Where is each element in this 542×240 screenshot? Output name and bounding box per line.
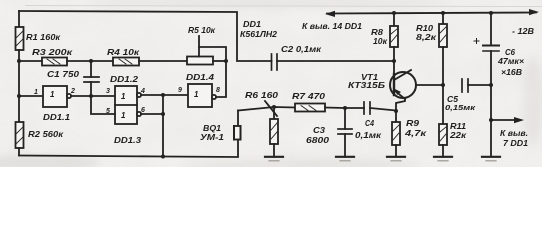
ground under output: [482, 157, 500, 161]
wire: [67, 60, 113, 62]
ground under R6: [265, 157, 283, 161]
wire bottom rail: [19, 140, 238, 157]
wire: [19, 95, 43, 97]
node C3 top: [343, 106, 347, 110]
power rail right: [325, 9, 539, 17]
wire collector: [416, 84, 443, 86]
resistor R2: [16, 122, 24, 156]
svg-text:C3: C3: [313, 125, 325, 135]
resistor R11: [439, 85, 447, 157]
wire output down: [490, 120, 492, 156]
svg-text:R3 200к: R3 200к: [32, 47, 73, 57]
capacitor C1: [84, 61, 99, 96]
resistor R5 (trimmer): [187, 36, 226, 65]
svg-text:9: 9: [178, 87, 182, 94]
node C5 out: [489, 83, 493, 87]
svg-text:6800: 6800: [306, 135, 329, 145]
svg-text:C1 750: C1 750: [47, 69, 79, 79]
svg-text:4,7к: 4,7к: [404, 128, 427, 138]
node R1-R3 junction: [17, 59, 21, 63]
node emitter network: [394, 109, 398, 113]
svg-text:- 12В: - 12В: [512, 26, 534, 36]
svg-text:22к: 22к: [449, 130, 467, 140]
resistor R7: [295, 104, 364, 112]
node C1 top: [89, 59, 93, 63]
svg-text:DD1: DD1: [243, 19, 261, 29]
capacitor C2: [272, 54, 395, 70]
wire BQ1 top to R6: [238, 107, 295, 111]
svg-text:×16В: ×16В: [501, 67, 522, 77]
svg-text:DD1.3: DD1.3: [114, 135, 141, 145]
resistor R4: [113, 58, 139, 66]
resistor R10: [439, 13, 447, 85]
svg-text:R1 160к: R1 160к: [26, 32, 61, 42]
node: [161, 112, 165, 116]
wire left top rail: [19, 11, 272, 61]
wire DD1.3 input: [91, 96, 115, 114]
svg-text:10к: 10к: [373, 36, 388, 46]
svg-text:DD1.1: DD1.1: [43, 112, 70, 122]
transducer BQ1: [234, 111, 241, 140]
node R6 top: [272, 105, 276, 109]
svg-text:DD1.4: DD1.4: [186, 72, 214, 82]
wire DD1.3 output: [141, 113, 163, 115]
svg-text:1: 1: [121, 111, 126, 120]
ground under C3: [336, 157, 354, 161]
svg-text:0,1мк: 0,1мк: [355, 130, 382, 140]
svg-text:2: 2: [70, 88, 75, 95]
resistor R6 (variable): [265, 101, 278, 157]
svg-text:1: 1: [34, 89, 38, 96]
ground under R11: [434, 157, 452, 161]
node C6 rail: [489, 11, 493, 15]
node C1 bottom: [89, 94, 93, 98]
svg-text:3: 3: [106, 88, 110, 95]
svg-text:R7 470: R7 470: [292, 91, 325, 101]
wire DD1.2 output to DD1.4 input: [141, 94, 188, 96]
node bottom rail: [161, 155, 165, 159]
svg-text:7 DD1: 7 DD1: [503, 138, 528, 148]
capacitor C6: [474, 13, 499, 120]
resistor R9: [392, 122, 400, 157]
wire left vertical: [18, 61, 20, 122]
capacitor C5: [462, 79, 491, 92]
svg-text:R2 560к: R2 560к: [28, 129, 64, 139]
svg-text:R5 10к: R5 10к: [188, 25, 216, 35]
gate DD1.1: [43, 86, 115, 107]
svg-text:C4: C4: [365, 118, 374, 128]
gate DD1.2 / DD1.3 block: [115, 86, 141, 124]
svg-text:К выв.: К выв.: [500, 128, 528, 138]
svg-text:4: 4: [140, 88, 145, 95]
wire: [19, 60, 42, 62]
capacitor C4: [364, 102, 396, 114]
svg-text:R9: R9: [406, 118, 419, 128]
wire output arrow: [491, 117, 524, 123]
svg-text:1: 1: [50, 90, 55, 99]
svg-text:C2 0,1мк: C2 0,1мк: [281, 44, 322, 54]
wire vertical to bottom rail: [162, 95, 164, 157]
svg-text:5: 5: [106, 108, 110, 115]
svg-text:К выв. 14 DD1: К выв. 14 DD1: [302, 21, 362, 31]
node DD1.1 input: [17, 94, 21, 98]
svg-text:R4 10к: R4 10к: [107, 47, 140, 57]
transistor VT1: [390, 61, 416, 122]
svg-text:1: 1: [194, 90, 199, 99]
resistor R3: [42, 58, 67, 66]
svg-text:47мк×: 47мк×: [497, 56, 524, 66]
svg-text:6: 6: [141, 107, 145, 114]
node R10 rail: [441, 11, 445, 15]
svg-text:1: 1: [121, 92, 126, 101]
resistor R8: [390, 13, 398, 61]
svg-text:КТ315Б: КТ315Б: [348, 80, 385, 90]
svg-text:8,2к: 8,2к: [416, 32, 437, 42]
svg-text:0,15мк: 0,15мк: [445, 103, 476, 112]
wire: [139, 60, 187, 62]
ground under R9: [387, 157, 405, 161]
node C2/R8/base: [392, 59, 396, 63]
node: [161, 93, 165, 97]
node R5 right: [224, 59, 228, 63]
resistor R1: [16, 11, 24, 61]
gate DD1.4: [188, 61, 226, 107]
svg-text:8: 8: [216, 87, 220, 94]
svg-text:УМ-1: УМ-1: [200, 132, 224, 142]
capacitor C3: [338, 108, 352, 157]
node collector: [441, 83, 445, 87]
svg-text:К561ЛН2: К561ЛН2: [240, 29, 277, 39]
node output: [489, 118, 493, 122]
svg-text:DD1.2: DD1.2: [110, 74, 138, 84]
svg-text:R6 160: R6 160: [245, 90, 278, 100]
node R8 rail: [392, 11, 396, 15]
